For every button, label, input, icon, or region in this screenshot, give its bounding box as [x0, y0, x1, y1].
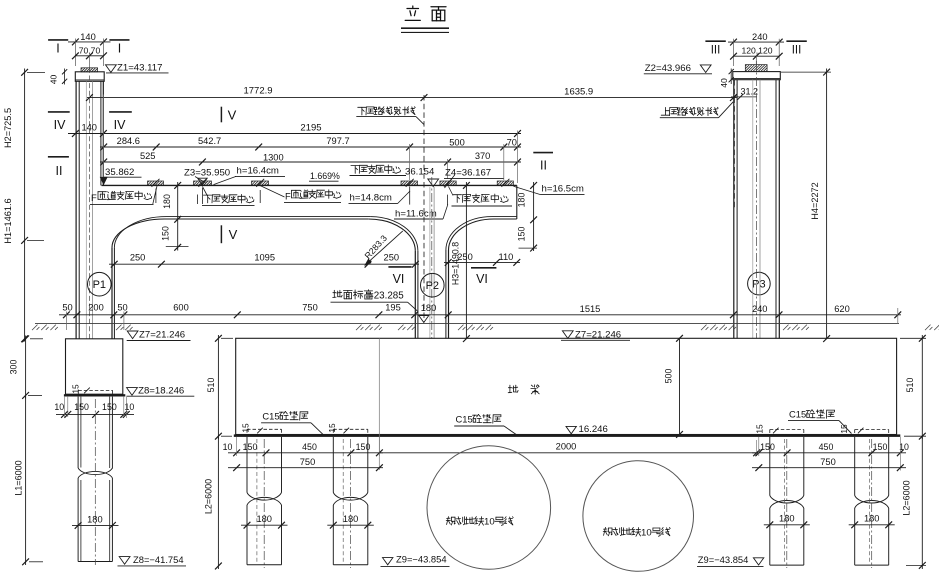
svg-text:H2=725.5: H2=725.5 — [3, 108, 13, 148]
svg-text:16.246: 16.246 — [579, 424, 608, 435]
label 上层路线设计线 — [661, 107, 718, 115]
pier P1 centerline dashed — [88, 68, 90, 339]
svg-text:1515: 1515 — [580, 304, 601, 314]
svg-text:500: 500 — [449, 137, 465, 147]
pier P3 cap — [733, 72, 781, 80]
beam top line — [102, 184, 517, 186]
svg-text:180: 180 — [87, 515, 103, 525]
dimension 1772.9 — [87, 97, 737, 99]
dimension 180 right pile 1 — [764, 524, 810, 526]
dimension 140 pier top — [68, 41, 111, 43]
elevation triangle 36.154 — [428, 179, 439, 187]
pile P1 — [77, 397, 79, 468]
bearing pad 5 — [440, 181, 456, 185]
title 立面 — [405, 6, 420, 20]
svg-text:h=16.4cm: h=16.4cm — [237, 166, 279, 177]
centerline center pile 2 — [350, 439, 352, 568]
dimension L2=6000 right side — [921, 436, 923, 569]
svg-text:500: 500 — [664, 369, 674, 384]
svg-text:525: 525 — [140, 151, 156, 161]
svg-text:150: 150 — [74, 402, 89, 412]
ground dim extension lines — [65, 312, 67, 331]
svg-text:F: F — [285, 191, 291, 202]
pile head dashed center pile 1 — [247, 428, 282, 430]
svg-text:180: 180 — [256, 514, 272, 524]
svg-text:150: 150 — [873, 442, 888, 452]
svg-text:180: 180 — [421, 303, 437, 313]
pier P1 cap — [75, 72, 104, 82]
svg-text:VI: VI — [393, 272, 405, 286]
label 下层支座中心 first — [197, 195, 199, 205]
dimension 250 1095 250 left opening — [109, 263, 419, 265]
svg-text:195: 195 — [385, 302, 401, 312]
svg-text:H3=1490.8: H3=1490.8 — [451, 242, 461, 285]
radius leader R283.3 — [366, 231, 403, 264]
svg-text:15: 15 — [839, 424, 849, 434]
svg-text:240: 240 — [752, 32, 768, 42]
svg-text:510: 510 — [206, 378, 216, 393]
svg-text:Z9=−43.854: Z9=−43.854 — [396, 553, 447, 564]
beam right end face — [516, 185, 518, 219]
svg-text:P3: P3 — [752, 279, 765, 291]
elevation Z9=-43.854 left — [383, 558, 393, 565]
section mark IV right — [109, 111, 132, 113]
dimension 150 fillet left — [174, 244, 181, 251]
svg-text:10: 10 — [641, 527, 652, 538]
section mark V upper — [220, 107, 222, 123]
dimension H4=2272 — [826, 69, 828, 339]
bearing pad 4 — [401, 181, 418, 185]
label 地面标高=23.285 — [333, 290, 373, 299]
svg-text:VI: VI — [476, 272, 488, 286]
route design line P2 dashed — [423, 95, 425, 323]
metro line 10 circle right — [583, 461, 694, 572]
pile cap big 地梁 — [236, 338, 897, 434]
svg-text:1635.9: 1635.9 — [564, 87, 593, 98]
svg-text:C15: C15 — [456, 413, 473, 424]
svg-text:V: V — [228, 108, 237, 123]
pier P2 centerline — [431, 177, 433, 339]
dimension 180 pile P1 — [72, 524, 119, 526]
svg-text:III: III — [711, 45, 721, 57]
svg-text:284.6: 284.6 — [117, 136, 140, 146]
beam soffit inner line — [114, 217, 166, 248]
svg-text:750: 750 — [302, 302, 318, 312]
svg-text:10: 10 — [223, 442, 233, 452]
bearing pad 6 — [497, 181, 513, 185]
svg-text:370: 370 — [475, 151, 491, 161]
elevation Z8=-41.754 — [119, 557, 130, 565]
bearing pad 1 — [148, 181, 164, 185]
svg-text:10: 10 — [54, 402, 64, 412]
dimension 10 150 150 10 left cap — [56, 413, 134, 415]
section mark VI right — [471, 267, 496, 269]
svg-text:750: 750 — [300, 457, 316, 467]
metro line 10 circle left — [427, 446, 551, 570]
section mark V lower — [220, 225, 222, 243]
elevation 16.246 — [566, 426, 576, 433]
svg-text:70,70: 70,70 — [79, 45, 101, 55]
svg-text:L2=6000: L2=6000 — [204, 479, 214, 514]
svg-text:542.7: 542.7 — [198, 136, 221, 146]
svg-text:2000: 2000 — [556, 441, 577, 451]
svg-text:15: 15 — [71, 384, 81, 394]
svg-text:150: 150 — [760, 442, 775, 452]
label 下层路线设计线 — [358, 107, 416, 115]
svg-text:250: 250 — [384, 252, 400, 262]
dimension H3=1490.8 — [465, 182, 467, 339]
svg-text:150: 150 — [517, 227, 527, 242]
svg-text:1.669%: 1.669% — [310, 171, 340, 181]
dimension 120 120 P3 — [734, 55, 780, 57]
svg-text:V: V — [229, 227, 238, 242]
svg-text:240: 240 — [752, 304, 768, 314]
svg-text:L1=6000: L1=6000 — [14, 460, 24, 495]
elevation Z8=18.246 — [127, 388, 138, 396]
svg-text:620: 620 — [834, 304, 850, 314]
svg-text:150: 150 — [356, 442, 371, 452]
svg-text:P2: P2 — [426, 280, 439, 292]
pier P1 right face below beam — [111, 247, 113, 339]
svg-text:I: I — [118, 42, 121, 56]
svg-text:150: 150 — [161, 226, 171, 241]
svg-text:15: 15 — [241, 423, 251, 433]
section mark VI left — [388, 266, 411, 268]
center pile 2 — [332, 437, 334, 493]
dimension 300 — [25, 336, 27, 399]
svg-text:III: III — [792, 45, 802, 57]
label 规划地铁10号线 left — [446, 517, 484, 526]
pier P1 inner lines — [85, 81, 87, 339]
svg-text:Z9=−43.854: Z9=−43.854 — [698, 554, 749, 565]
dimension 2000 — [379, 452, 757, 454]
pile head dashed P1 — [78, 389, 112, 391]
svg-text:Z1=43.117: Z1=43.117 — [117, 63, 162, 74]
svg-text:II: II — [56, 164, 63, 178]
dimension row 140+2195 — [68, 133, 521, 135]
pile P1 centerline — [94, 399, 96, 565]
pier P1 bearing pad — [81, 68, 98, 72]
centerline right pile 2 — [871, 439, 873, 568]
dimension 180 center pile 2 — [327, 524, 374, 526]
ground line — [35, 323, 899, 325]
pier P3 centerline — [755, 61, 757, 339]
svg-text:40: 40 — [719, 78, 729, 88]
svg-text:250: 250 — [130, 253, 146, 263]
svg-text:110: 110 — [498, 252, 513, 262]
elevation Z7=21.246 left — [127, 331, 138, 339]
svg-text:h=14.8cm: h=14.8cm — [350, 193, 392, 204]
route design line P3 dashed — [733, 80, 735, 210]
svg-text:600: 600 — [173, 302, 189, 312]
dimension row 284.6 542.7 797.7 500 70 — [100, 146, 521, 148]
dimension 150 450 150 10 right piles — [752, 452, 906, 454]
svg-text:10: 10 — [484, 517, 495, 528]
svg-text:510: 510 — [905, 378, 915, 393]
svg-text:35.862: 35.862 — [105, 167, 134, 178]
dimension L1=6000 — [25, 395, 27, 565]
svg-text:II: II — [540, 159, 547, 173]
pier P2 left face — [414, 251, 416, 339]
svg-text:1300: 1300 — [263, 152, 284, 162]
extension line 2000 left — [378, 338, 380, 470]
elevation triangle Z3 — [198, 178, 208, 185]
svg-text:H1=1461.6: H1=1461.6 — [3, 198, 13, 243]
svg-text:I: I — [56, 42, 59, 56]
section mark I left — [48, 39, 68, 41]
svg-text:180: 180 — [864, 514, 880, 524]
svg-text:1095: 1095 — [254, 253, 275, 263]
dimension 180 right pile 2 — [849, 524, 895, 526]
dimension 180+150 right — [533, 182, 535, 251]
pile head dashed right pile 2 — [855, 429, 889, 431]
dimension 180 center pile 1 — [241, 524, 288, 526]
pile head dashed center pile 2 — [333, 428, 368, 430]
pier P3 inner lines — [752, 80, 754, 339]
ground elevation triangle P2 — [419, 316, 429, 323]
svg-text:Z4=36.167: Z4=36.167 — [445, 167, 491, 178]
center pile 1 — [246, 437, 248, 493]
dimension 70 70 — [75, 55, 103, 57]
svg-text:750: 750 — [820, 457, 836, 467]
label 下层支座中心 P2 right — [453, 194, 508, 203]
svg-text:Z8=−41.754: Z8=−41.754 — [133, 554, 184, 565]
section mark IV left — [48, 111, 70, 113]
svg-text:IV: IV — [54, 118, 66, 132]
svg-text:Z3=35.950: Z3=35.950 — [184, 168, 230, 179]
dimension 750 right piles — [752, 467, 906, 469]
svg-text:450: 450 — [302, 442, 317, 452]
dimension H1=1461.6 — [24, 240, 26, 341]
svg-text:IV: IV — [114, 118, 126, 132]
section mark III left — [705, 40, 725, 42]
svg-text:15: 15 — [327, 423, 337, 433]
pile head dashed right pile 1 — [770, 429, 804, 431]
dimension row 525 1300 370 — [100, 161, 521, 163]
section mark I right — [109, 39, 129, 41]
centerline center pile 1 — [263, 439, 265, 568]
right pile 1 — [769, 437, 771, 496]
svg-text:180: 180 — [517, 193, 527, 208]
pier P3 bearing pad — [745, 65, 767, 72]
beam soffit outer line — [112, 219, 165, 247]
dimension 180 beam depth left — [177, 182, 179, 251]
svg-text:797.7: 797.7 — [326, 136, 349, 146]
section mark III right — [786, 40, 806, 42]
ground dimension line — [59, 314, 901, 316]
pier label P2 — [421, 273, 445, 297]
ground hatching — [32, 325, 58, 331]
svg-text:Z7=21.246: Z7=21.246 — [139, 330, 185, 341]
svg-text:C15: C15 — [789, 408, 806, 419]
pier label P3 — [748, 272, 771, 295]
svg-text:=23.285: =23.285 — [368, 291, 404, 302]
section mark II left — [48, 156, 69, 158]
label 下层支座中心 P2 left — [351, 165, 401, 174]
svg-text:70: 70 — [507, 137, 517, 147]
svg-text:H4=2272: H4=2272 — [810, 182, 820, 220]
svg-text:450: 450 — [819, 442, 834, 452]
svg-text:F: F — [91, 192, 97, 203]
svg-text:Z8=18.246: Z8=18.246 — [138, 386, 184, 397]
bearing pad 3 — [252, 181, 269, 185]
bearing centerline marks — [409, 187, 411, 205]
svg-text:C15: C15 — [262, 410, 279, 421]
elevation Z7=21.246 right — [562, 331, 573, 339]
svg-text:31.2: 31.2 — [741, 86, 759, 96]
pile cap P1 — [66, 339, 123, 394]
svg-text:Z2=43.966: Z2=43.966 — [645, 63, 691, 74]
svg-text:180: 180 — [343, 514, 359, 524]
dimension 500 internal — [679, 338, 681, 434]
svg-text:h=16.5cm: h=16.5cm — [542, 184, 584, 195]
dimension 510 left side — [217, 335, 219, 439]
pile cap P1 cushion — [64, 394, 125, 396]
right pile 2 — [854, 437, 856, 496]
pier P3 column — [733, 80, 735, 339]
svg-text:P1: P1 — [93, 279, 106, 291]
svg-text:50: 50 — [62, 302, 72, 312]
svg-text:1772.9: 1772.9 — [243, 86, 272, 97]
pier P2 right face — [445, 250, 447, 339]
svg-text:15: 15 — [754, 424, 764, 434]
big cushion C15 — [234, 434, 901, 437]
svg-text:140: 140 — [80, 32, 96, 42]
svg-text:140: 140 — [81, 123, 97, 133]
label 地梁 — [508, 385, 518, 393]
svg-text:L2=6000: L2=6000 — [902, 480, 912, 515]
label 规划地铁10号线 right — [603, 527, 641, 536]
dimension L2=6000 left side — [217, 436, 219, 569]
section mark II right — [533, 152, 553, 154]
dimension 10 150 450 150 center piles — [228, 452, 383, 454]
svg-text:200: 200 — [88, 302, 104, 312]
pier P2 inner lines — [429, 187, 431, 339]
dimension 510 right side — [921, 335, 923, 439]
svg-text:10: 10 — [125, 402, 135, 412]
svg-text:40: 40 — [49, 75, 59, 85]
pier label P1 — [88, 272, 112, 296]
elevation Z1=43.117 — [106, 65, 117, 73]
svg-text:2195: 2195 — [300, 123, 321, 134]
svg-text:36.154: 36.154 — [405, 166, 435, 177]
svg-text:120,120: 120,120 — [741, 46, 772, 56]
svg-text:300: 300 — [9, 360, 19, 375]
dimension 750 center piles — [228, 467, 383, 469]
svg-text:150: 150 — [243, 442, 258, 452]
dimension 240 P3 top — [728, 41, 784, 43]
dimension 250 110 right opening — [444, 261, 520, 263]
dimension H2=725.5 — [24, 69, 26, 241]
svg-text:180: 180 — [779, 514, 795, 524]
svg-text:h=11.6cm: h=11.6cm — [395, 209, 437, 220]
bearing pad 2 — [194, 181, 212, 185]
extension lines dimension rows — [102, 95, 104, 184]
svg-text:180: 180 — [162, 194, 172, 209]
svg-text:50: 50 — [117, 302, 127, 312]
pier P1 column above beam — [75, 81, 77, 339]
centerline right pile 1 — [786, 439, 788, 568]
